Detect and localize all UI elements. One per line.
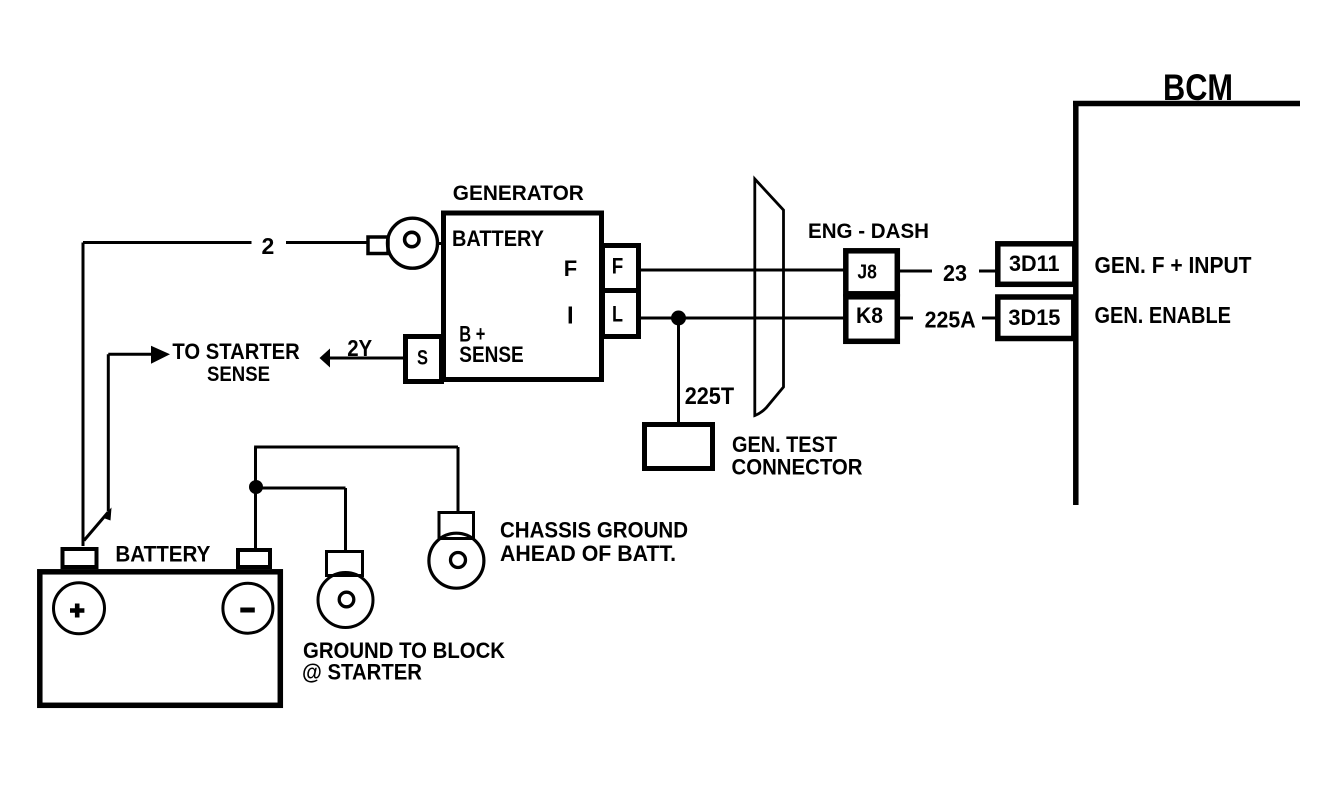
chassis ground ring terminal <box>429 513 484 589</box>
terminal S box <box>406 337 442 382</box>
firewall bulkhead divider <box>755 179 784 416</box>
connector cavity K8 box <box>846 297 898 342</box>
junction node on L wire <box>671 311 686 326</box>
connector cavity J8 box <box>846 251 898 294</box>
ground wire to chassis ground vertical drop <box>457 447 460 513</box>
svg-text:2Y: 2Y <box>347 335 372 361</box>
svg-text:GEN. TEST: GEN. TEST <box>732 432 838 457</box>
svg-text:2: 2 <box>262 233 275 259</box>
terminal F box <box>603 246 639 291</box>
generator pin I label <box>569 307 572 324</box>
wire 2Y from S terminal <box>329 357 404 360</box>
BCM pin 3D15 box <box>998 297 1074 339</box>
ground wire to block vertical drop <box>344 488 347 551</box>
svg-text:GEN. F + INPUT: GEN. F + INPUT <box>1095 252 1252 278</box>
svg-text:CHASSIS GROUND: CHASSIS GROUND <box>500 518 688 543</box>
gen test connector box <box>645 425 713 469</box>
junction node on ground wire <box>249 480 263 494</box>
ground to block ring terminal <box>318 552 373 628</box>
svg-text:L: L <box>612 302 623 327</box>
BCM module outline top edge <box>1073 101 1300 107</box>
wire to starter sense diagonal tap at battery <box>84 512 108 541</box>
svg-text:@ STARTER: @ STARTER <box>302 660 422 685</box>
svg-text:225A: 225A <box>925 307 976 333</box>
arrowhead to starter sense <box>151 346 170 364</box>
svg-text:23: 23 <box>943 260 967 286</box>
wire from terminal F to connector J8 <box>639 269 844 272</box>
svg-text:GENERATOR: GENERATOR <box>453 182 584 205</box>
svg-text:3D15: 3D15 <box>1008 305 1060 330</box>
wire J8 to 3D11 right segment <box>979 270 996 273</box>
wire 2 vertical drop to battery + terminal <box>82 243 85 547</box>
BCM pin 3D11 box <box>998 244 1075 284</box>
svg-text:3D11: 3D11 <box>1009 251 1060 276</box>
wire J8 to 3D11 left segment <box>898 270 932 273</box>
svg-text:ENG - DASH: ENG - DASH <box>808 220 929 243</box>
svg-text:SENSE: SENSE <box>459 342 523 367</box>
wire 225T vertical <box>677 318 680 423</box>
svg-text:CONNECTOR: CONNECTOR <box>732 455 863 480</box>
svg-text:BATTERY: BATTERY <box>115 542 210 567</box>
ground wire to block horizontal <box>256 487 346 490</box>
battery box <box>40 572 280 706</box>
ground wire from - terminal up <box>254 447 257 548</box>
svg-text:225T: 225T <box>685 383 735 410</box>
svg-text:F: F <box>612 254 624 279</box>
ground wire to chassis ground top horizontal <box>254 446 458 449</box>
battery negative post circle <box>223 583 273 633</box>
svg-text:J8: J8 <box>857 262 877 284</box>
wire to starter sense horizontal segment <box>108 353 152 356</box>
battery + terminal post <box>63 549 97 567</box>
battery - terminal post <box>238 550 270 567</box>
battery negative minus sign <box>240 608 255 613</box>
wire 2 horizontal left segment <box>83 241 252 244</box>
generator box <box>444 213 602 380</box>
battery positive plus sign <box>70 604 84 618</box>
svg-text:AHEAD OF BATT.: AHEAD OF BATT. <box>500 541 676 566</box>
svg-text:GEN. ENABLE: GEN. ENABLE <box>1095 302 1232 328</box>
wire K8 to 3D15 left segment <box>898 317 913 320</box>
wire 2 horizontal right segment <box>286 241 368 244</box>
svg-text:F: F <box>564 256 577 281</box>
wire from terminal L to connector K8 <box>639 317 844 320</box>
arrowhead on wire 2Y <box>320 349 331 368</box>
battery positive post circle <box>54 583 105 634</box>
ring terminal at generator BATTERY output <box>368 218 443 268</box>
wire K8 to 3D15 right segment <box>982 317 996 320</box>
svg-text:TO STARTER: TO STARTER <box>172 339 299 364</box>
BCM module outline left edge <box>1073 101 1079 505</box>
terminal L box <box>603 291 639 337</box>
arrowhead at battery tap <box>102 508 112 521</box>
wire to starter sense vertical segment <box>107 354 110 511</box>
svg-text:SENSE: SENSE <box>207 363 270 386</box>
svg-text:K8: K8 <box>856 303 883 328</box>
svg-text:S: S <box>417 347 428 370</box>
svg-text:BATTERY: BATTERY <box>452 226 544 251</box>
